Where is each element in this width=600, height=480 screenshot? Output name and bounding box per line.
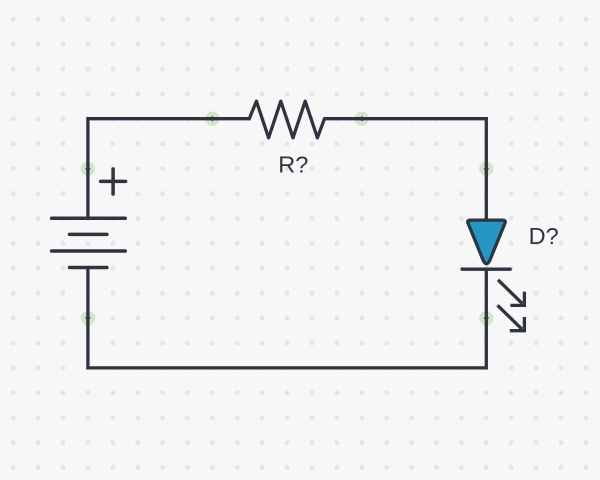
node: resistor right terminal — [355, 112, 369, 126]
node: resistor left terminal — [205, 112, 219, 126]
svg-text:R?: R? — [278, 152, 308, 178]
node: LED cathode terminal — [479, 311, 493, 325]
svg-text:D?: D? — [529, 223, 559, 249]
LED D? — [462, 220, 524, 331]
LED anode triangle — [468, 220, 506, 264]
pin tick: resistor right — [361, 116, 363, 121]
pin tick: battery positive — [85, 168, 90, 170]
pin tick: LED cathode — [484, 317, 489, 319]
node: battery negative terminal — [81, 311, 95, 325]
battery plate short — [70, 233, 107, 237]
battery polarity plus sign — [101, 169, 126, 194]
pin tick: LED anode — [484, 168, 489, 170]
battery plate long (top, +) — [52, 217, 126, 221]
LED light arrow 2 — [498, 305, 525, 330]
LED cathode bar — [462, 268, 510, 271]
resistor R? — [249, 101, 324, 138]
battery plate long — [52, 249, 126, 253]
node: LED anode terminal — [479, 162, 493, 176]
wire: LED cathode down, across bottom, up to battery - — [88, 267, 486, 368]
wire: battery + up and across to resistor — [88, 119, 251, 219]
pin tick: resistor left — [212, 116, 214, 121]
battery (voltage source) — [52, 218, 126, 267]
LED light arrow 1 — [498, 280, 524, 306]
battery plate short (bottom, -) — [70, 266, 107, 270]
pin tick: battery negative — [85, 317, 90, 319]
node: battery positive terminal — [81, 162, 95, 176]
wire: resistor to LED anode — [324, 119, 487, 219]
